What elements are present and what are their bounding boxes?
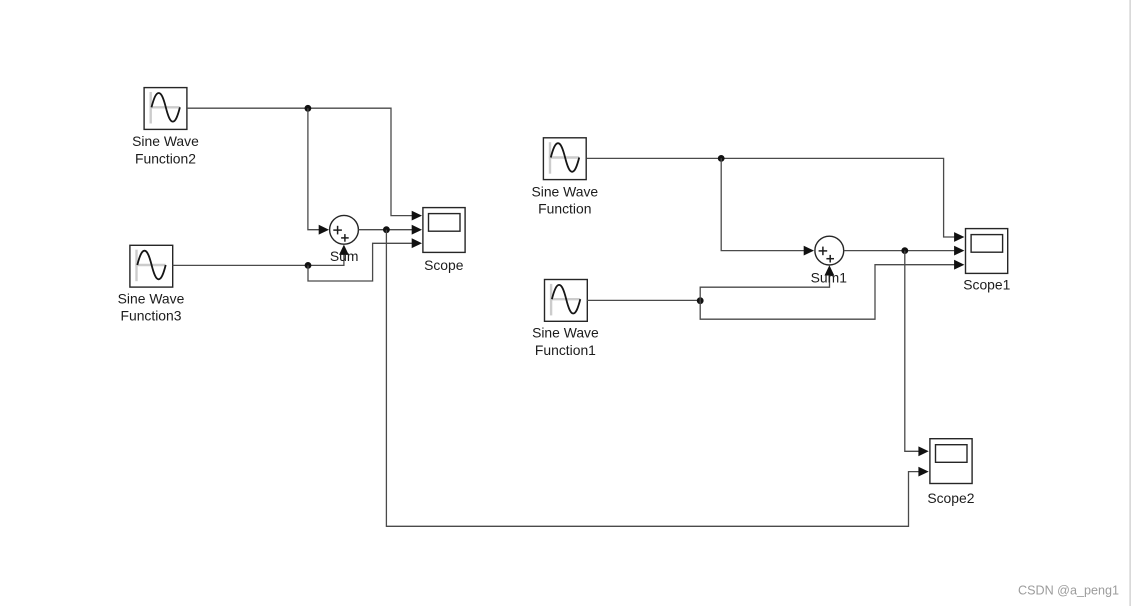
svg-text:CSDN @a_peng1: CSDN @a_peng1: [1018, 584, 1119, 598]
svg-text:Sine Wave: Sine Wave: [132, 133, 199, 149]
svg-text:Function: Function: [538, 201, 591, 217]
junction dot on W8: [697, 297, 704, 304]
sine source block Sine Wave Function3: [130, 245, 173, 287]
wire W8c: branch from W8 to Scope1 input 3: [700, 265, 956, 320]
svg-text:Function1: Function1: [535, 342, 596, 358]
svg-text:Scope2: Scope2: [927, 490, 974, 506]
svg-text:Sine Wave: Sine Wave: [118, 290, 185, 306]
wire W8: Sine Wave Function1 output to junction: [587, 299, 700, 301]
wire W8b: branch from W8 up to Sum1 bottom input: [700, 274, 829, 300]
wire W10: branch from W9 down to Scope2 input 1: [905, 251, 920, 452]
scope block Scope2: [930, 439, 972, 484]
junction dot on W6 (branch to Sum1 left input): [718, 155, 725, 162]
sine source block Sine Wave Function: [543, 138, 586, 180]
wire W5: Sum output to Scope input 2: [358, 229, 413, 231]
wire W4: branch from W3 to Scope input 3: [308, 243, 414, 281]
scope block Scope: [423, 208, 465, 253]
junction dot on W3 (branch to Scope input 3): [305, 262, 312, 269]
wire W9: Sum1 output to Scope1 input 2: [844, 250, 956, 252]
wire W6: Sine Wave Function output to Scope1 input 1: [587, 158, 956, 237]
svg-text:Sine Wave: Sine Wave: [531, 183, 598, 199]
svg-text:Function3: Function3: [120, 308, 181, 324]
svg-text:Sine Wave: Sine Wave: [532, 325, 599, 341]
sum block Sum (circle with ++ ): [330, 215, 359, 244]
junction dot on W9 (branch to Scope2 input 1): [901, 247, 908, 254]
sine source block Sine Wave Function1: [545, 280, 588, 322]
wire W2: branch from W1 down to Sum left input: [308, 108, 320, 230]
wire W11: branch from W5 down and across to Scope2 input 2: [386, 230, 920, 527]
svg-text:Function2: Function2: [135, 151, 196, 167]
scope block Scope1: [966, 229, 1008, 274]
junction dot on W1 (branch to Sum left input): [305, 105, 312, 112]
svg-text:Sum1: Sum1: [811, 270, 848, 286]
sine source block Sine Wave Function2: [144, 88, 187, 130]
svg-text:Scope1: Scope1: [963, 276, 1010, 292]
right edge scrollbar strip: [1129, 0, 1131, 606]
svg-text:Scope: Scope: [424, 257, 464, 273]
wire W3: Sine Wave Function3 output to Sum bottom input: [173, 254, 344, 266]
wire W1: Sine Wave Function2 output to Scope input 1: [187, 108, 414, 215]
svg-text:Sum: Sum: [330, 248, 359, 264]
sum block Sum1 (circle with ++ ): [815, 236, 844, 265]
wire W7: branch from W6 down to Sum1 left input: [721, 158, 805, 250]
junction dot on W5 (branch to Scope2 input 2): [383, 226, 390, 233]
